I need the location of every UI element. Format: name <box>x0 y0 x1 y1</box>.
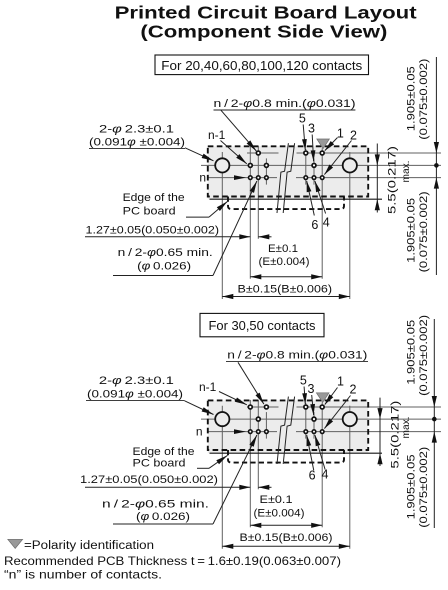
centerline (middle row) <box>201 164 441 166</box>
svg-text:n-1: n-1 <box>208 128 226 142</box>
box label: For 20,40,60,80,100,120 contacts <box>155 55 369 75</box>
PC board (gray area) <box>208 146 368 199</box>
extension line contact column n-1 <box>257 400 259 489</box>
dimension line 1.27 <box>85 236 250 238</box>
leader pin 1 <box>325 388 338 405</box>
svg-text:1.905±0.05: 1.905±0.05 <box>406 320 418 385</box>
svg-text:(φ 0.026): (φ 0.026) <box>137 261 191 273</box>
leader n-1 <box>221 141 247 164</box>
connector lower step outline (dashed) <box>228 450 344 463</box>
leader edge of PC board <box>197 467 209 469</box>
extension line contact column 3/4 <box>313 412 315 439</box>
svg-text:2: 2 <box>350 128 357 142</box>
Edge of PC board line <box>210 198 383 200</box>
extension line contact column n-1 <box>257 146 259 239</box>
svg-text:For 30,50 contacts: For 30,50 contacts <box>209 319 316 333</box>
extension line contact column 1/2 <box>321 402 323 527</box>
leader 2.3 dia holes <box>185 148 214 161</box>
svg-text:1.905±0.05: 1.905±0.05 <box>406 198 418 263</box>
svg-text:(0.091φ ±0.004): (0.091φ ±0.004) <box>87 388 183 400</box>
leader 0.8 dia holes <box>238 362 264 404</box>
svg-text:n / 2-φ0.8 min.(φ0.031): n / 2-φ0.8 min.(φ0.031) <box>227 350 367 362</box>
svg-text:Edge of the: Edge of the <box>123 192 185 204</box>
svg-text:2: 2 <box>350 383 357 397</box>
PC board (gray area) <box>208 400 368 453</box>
svg-text:(Component Side View): (Component Side View) <box>140 22 387 42</box>
leader pin 4 <box>315 181 326 214</box>
svg-text:1.905±0.05: 1.905±0.05 <box>406 454 418 519</box>
svg-text:PC board: PC board <box>123 206 176 218</box>
extension line contact column <box>265 412 267 439</box>
mounting hole right (2.3 dia) <box>343 412 357 426</box>
svg-text:n-1: n-1 <box>199 380 217 394</box>
extension line left mounting hole centerline <box>221 406 223 549</box>
leader n (arrow on row line) <box>234 175 246 180</box>
svg-text:2-φ 2.3±0.1: 2-φ 2.3±0.1 <box>99 123 174 135</box>
svg-text:n / 2-φ0.65 min.: n / 2-φ0.65 min. <box>102 498 209 510</box>
svg-text:Printed Circuit Board Layout: Printed Circuit Board Layout <box>115 2 417 22</box>
svg-text:n: n <box>199 171 206 185</box>
leader 2.3 dia holes <box>185 401 214 415</box>
contact holes <box>248 405 252 409</box>
legend polarity triangle <box>8 539 23 548</box>
svg-text:1.905±0.05: 1.905±0.05 <box>406 66 418 131</box>
dimension line E <box>250 524 322 526</box>
dimension line 5.5 max <box>376 144 378 213</box>
extension line left mounting hole centerline <box>221 152 223 299</box>
svg-text:n: n <box>196 425 203 439</box>
svg-text:3: 3 <box>308 382 315 396</box>
svg-text:6: 6 <box>311 218 318 232</box>
polarity identification triangle <box>317 139 330 149</box>
dimension line 1.905 (far right) <box>435 57 437 275</box>
svg-text:(0.075±0.002): (0.075±0.002) <box>418 447 430 528</box>
leader pin 5 <box>304 387 305 405</box>
extension line contact column <box>265 158 267 184</box>
connector outline (dashed rectangle) <box>208 146 368 196</box>
svg-text:(E±0.004): (E±0.004) <box>259 256 310 268</box>
extension line contact column n <box>249 146 251 279</box>
svg-text:5: 5 <box>300 374 307 388</box>
svg-text:max.: max. <box>400 417 412 439</box>
svg-text:5: 5 <box>299 112 306 126</box>
svg-text:n / 2-φ0.65 min.: n / 2-φ0.65 min. <box>118 247 213 259</box>
row line upper contacts <box>247 152 279 154</box>
extension line contact column 1/2 <box>321 148 323 278</box>
svg-text:max.: max. <box>400 161 412 183</box>
svg-text:E±0.1: E±0.1 <box>268 243 298 255</box>
leader pin 2 <box>324 141 351 175</box>
leader n-1 <box>219 392 247 405</box>
contact holes <box>256 151 260 155</box>
dimension line E <box>250 276 322 278</box>
svg-text:(0.091φ ±0.004): (0.091φ ±0.004) <box>89 137 185 149</box>
svg-text:1.27±0.05(0.050±0.002): 1.27±0.05(0.050±0.002) <box>86 225 220 237</box>
svg-text:(0.075±0.002): (0.075±0.002) <box>418 315 430 396</box>
break lines (continuation symbol) <box>277 397 288 464</box>
svg-text:PC board: PC board <box>133 458 186 470</box>
leader pin 2 <box>324 396 350 429</box>
leader pin 6 <box>307 181 315 216</box>
row line upper contacts <box>247 406 279 408</box>
dimension line 5.5 max <box>379 398 381 466</box>
mounting hole right (2.3 dia) <box>343 158 357 172</box>
svg-text:n / 2-φ0.8 min.(φ0.031): n / 2-φ0.8 min.(φ0.031) <box>214 98 356 110</box>
svg-text:Edge of the: Edge of the <box>133 446 195 458</box>
connector lower step outline (dashed) <box>228 197 344 210</box>
leader pin 1 <box>325 138 338 151</box>
extension line contact column 5/6 <box>305 149 307 185</box>
dimension line B <box>222 545 349 547</box>
break lines (continuation symbol) <box>277 143 288 213</box>
svg-text:1: 1 <box>337 126 344 140</box>
svg-text:(0.075±0.002): (0.075±0.002) <box>418 191 430 272</box>
svg-text:(0.075±0.002): (0.075±0.002) <box>418 59 430 140</box>
svg-text:5.5(0.217): 5.5(0.217) <box>386 146 398 214</box>
svg-text:(E±0.004): (E±0.004) <box>254 507 305 519</box>
leader pin 6 <box>307 435 314 471</box>
leader 0.65 dia holes <box>113 523 213 525</box>
svg-text:“n” is number of contacts.: “n” is number of contacts. <box>4 568 162 582</box>
Edge of PC board line <box>210 452 383 454</box>
svg-text:=Polarity identification: =Polarity identification <box>24 540 154 552</box>
svg-text:B±0.15(B±0.006): B±0.15(B±0.006) <box>240 532 333 544</box>
extension line contact column 3/4 <box>313 158 315 184</box>
dimension line 1.27 <box>85 486 250 488</box>
svg-text:4: 4 <box>322 468 329 482</box>
leader 0.65 dia holes <box>113 275 213 277</box>
svg-text:E±0.1: E±0.1 <box>260 494 293 506</box>
svg-text:6: 6 <box>309 469 316 483</box>
svg-text:1: 1 <box>337 374 344 388</box>
row line lower contacts <box>208 431 277 433</box>
dimension line 1.905 (far right) <box>433 319 435 528</box>
svg-text:(φ 0.026): (φ 0.026) <box>136 511 190 523</box>
mounting hole left (2.3 dia) <box>215 412 229 426</box>
leader 0.8 dia holes <box>221 110 256 151</box>
extension line contact column 5/6 <box>305 403 307 439</box>
svg-text:4: 4 <box>323 215 330 229</box>
extension line right mounting hole centerline <box>349 406 351 549</box>
leader pin 4 <box>315 435 325 470</box>
extension line right mounting hole centerline <box>349 152 351 299</box>
box label: For 30,50 contacts <box>200 313 324 336</box>
dimension line B <box>222 296 349 298</box>
row line lower contacts <box>208 177 277 179</box>
leader pin 5 <box>303 125 305 151</box>
mounting hole left (2.3 dia) <box>215 158 229 172</box>
leader pin 3 <box>312 135 313 162</box>
connector outline (dashed rectangle) <box>208 400 368 450</box>
leader edge of PC board <box>186 216 209 218</box>
svg-text:For 20,40,60,80,100,120 contac: For 20,40,60,80,100,120 contacts <box>161 59 362 73</box>
extension line contact column n <box>249 400 251 527</box>
leader pin 3 <box>312 395 314 415</box>
svg-text:2-φ 2.3±0.1: 2-φ 2.3±0.1 <box>99 375 174 387</box>
svg-text:3: 3 <box>308 121 315 135</box>
svg-text:B±0.15(B±0.006): B±0.15(B±0.006) <box>238 284 333 296</box>
svg-text:1.27±0.05(0.050±0.002): 1.27±0.05(0.050±0.002) <box>80 474 218 486</box>
svg-text:Recommended PCB Thickness t =: Recommended PCB Thickness t = 1.6±0.19(0… <box>4 554 341 568</box>
leader n (arrow on row line) <box>234 429 246 434</box>
polarity identification triangle <box>316 393 329 403</box>
centerline (middle row) <box>201 418 441 420</box>
